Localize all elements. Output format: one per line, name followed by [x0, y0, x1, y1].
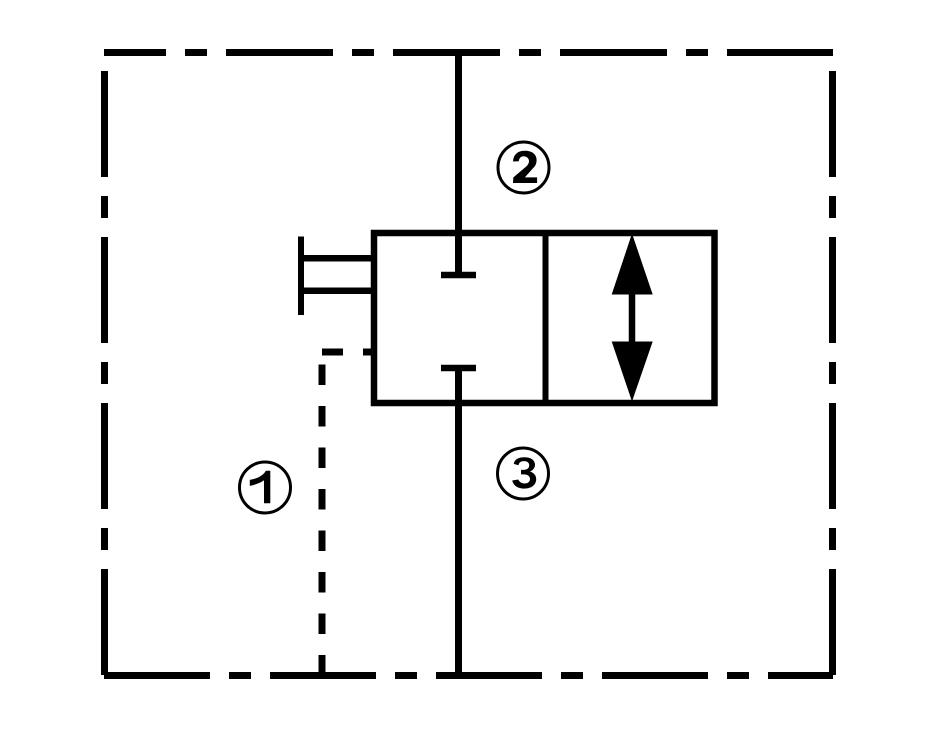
- port label circle 3: [498, 448, 549, 499]
- port label digit 1: [250, 471, 270, 504]
- plunger actuator bar: [298, 237, 304, 316]
- port label digit 3: [512, 457, 536, 488]
- wire port 3 line: [455, 368, 462, 675]
- pilot line port 1 horizontal (dashed): [322, 349, 375, 356]
- enclosure boundary left (dash-dot): [101, 52, 108, 675]
- blocked port 2 T-bar: [441, 272, 476, 279]
- enclosure boundary right (dash-dot): [829, 52, 836, 675]
- port label digit 2: [513, 151, 537, 183]
- plunger actuator rod bottom: [299, 287, 373, 294]
- flow path arrow head down: [612, 342, 653, 402]
- pilot line port 1 vertical (dashed): [319, 352, 326, 675]
- flow path arrow shaft: [629, 290, 636, 346]
- wire port 2 line: [455, 52, 462, 272]
- port label circle 2: [498, 142, 549, 193]
- enclosure boundary bottom (dash-dot): [104, 672, 833, 679]
- valve position divider: [543, 233, 549, 403]
- flow path arrow head up: [612, 234, 653, 295]
- valve body box: [374, 233, 715, 403]
- port label circle 1: [240, 462, 291, 513]
- blocked port 3 T-bar: [441, 365, 476, 372]
- enclosure boundary top (dash-dot): [104, 49, 833, 56]
- plunger actuator rod top: [299, 255, 373, 262]
